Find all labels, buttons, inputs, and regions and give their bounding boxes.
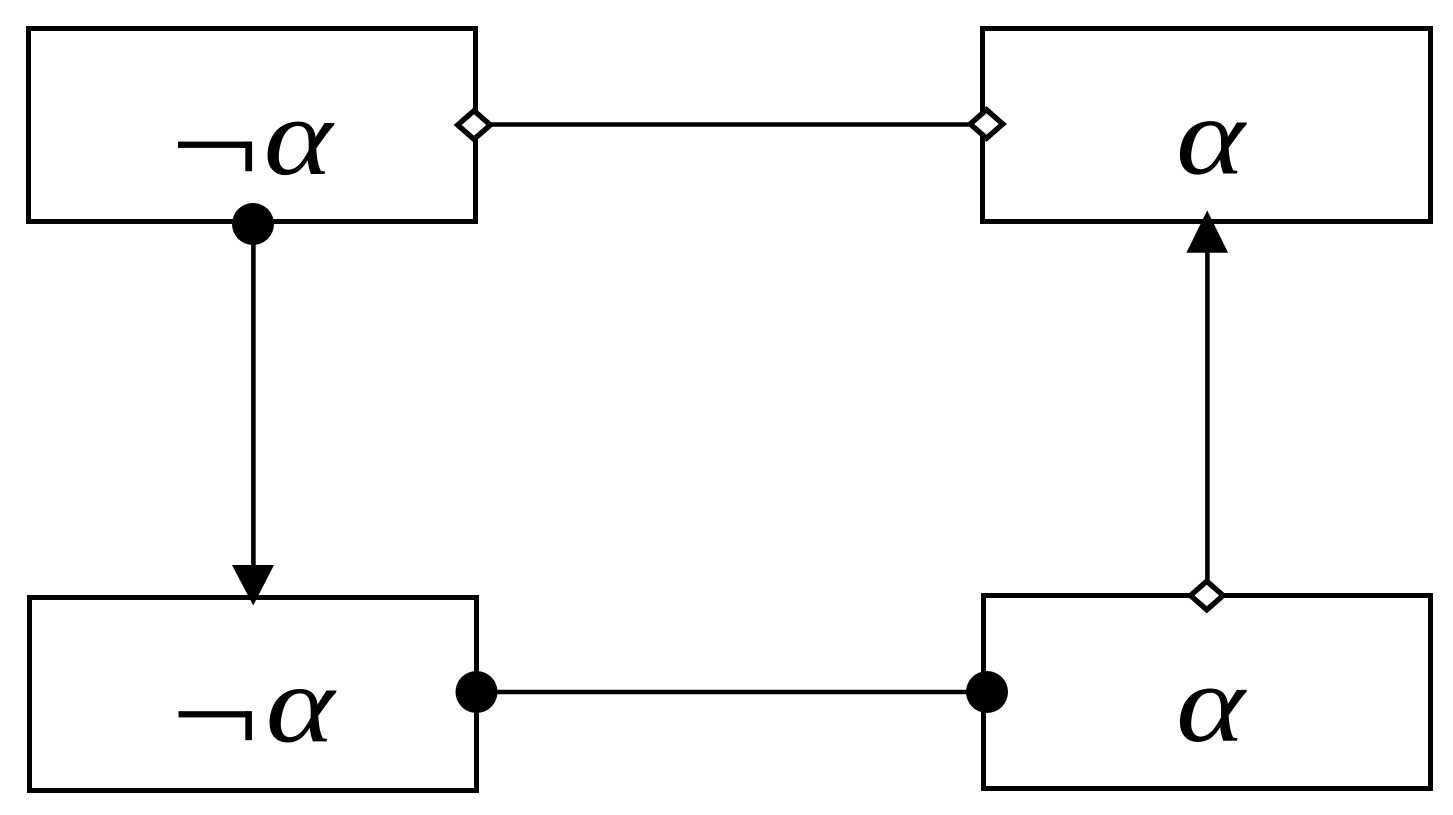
label: NOT sign of box B3 (bar) <box>179 711 252 717</box>
box B2: top-right class box (alpha) <box>983 29 1431 222</box>
label: NOT sign of box B3 (stem) <box>245 711 252 740</box>
box B3: bottom-left class box (NOT alpha) <box>30 598 477 791</box>
marker: filled arrowhead pointing down into box B3 <box>232 565 274 606</box>
marker: open diamond on top edge of box B4 <box>1191 581 1224 610</box>
marker: filled circle on right edge of box B3 <box>456 671 498 713</box>
svg-text:α: α <box>1176 643 1247 766</box>
wire: left vertical arrow from box B1 down to box B3 <box>251 222 256 578</box>
label: alpha in box B3 <box>266 644 337 767</box>
box B4: bottom-right class box (alpha) <box>984 596 1431 789</box>
marker: open diamond on right edge of box B1 <box>458 111 491 140</box>
svg-text:α: α <box>264 76 335 199</box>
marker: filled circle on left edge of box B4 <box>966 671 1008 713</box>
label: NOT sign of box B1 (stem) <box>245 142 252 172</box>
box B1: top-left class box (NOT alpha) <box>29 29 476 222</box>
svg-text:α: α <box>1176 76 1247 199</box>
label: alpha in box B2 <box>1176 76 1247 199</box>
svg-text:α: α <box>266 644 337 767</box>
wire: right vertical arrow from box B4 up to box B2 <box>1205 250 1210 592</box>
marker: open diamond on left edge of box B2 <box>970 110 1003 139</box>
marker: filled arrowhead pointing up into box B2 <box>1186 210 1228 252</box>
label: NOT sign of box B1 (bar) <box>178 142 252 148</box>
label: alpha in box B4 <box>1176 643 1247 766</box>
marker: filled circle on bottom edge of box B1 <box>232 203 274 245</box>
wire: top horizontal association between box B1 and box B2 <box>474 122 985 127</box>
wire: bottom horizontal association between box B3 and box B4 <box>477 690 987 695</box>
label: alpha in box B1 <box>264 76 335 199</box>
